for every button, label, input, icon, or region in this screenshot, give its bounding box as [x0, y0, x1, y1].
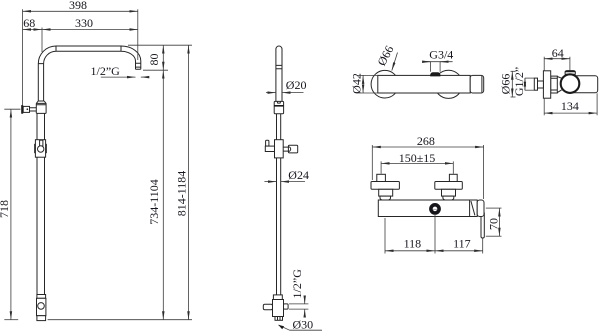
bottom collar	[37, 295, 46, 299]
svg-text:Ø30: Ø30	[293, 317, 314, 331]
svg-text:Ø66: Ø66	[498, 74, 512, 95]
wire upper left pipe	[38, 64, 43, 101]
svg-text:68: 68	[23, 16, 35, 30]
bottom collar	[273, 295, 282, 300]
svg-text:1/2”G: 1/2”G	[91, 64, 121, 78]
svg-text:117: 117	[453, 236, 471, 250]
left escutcheon circle	[371, 70, 399, 98]
wall bracket knob	[21, 105, 23, 114]
right union	[442, 189, 456, 196]
wire lower pipe upper part	[37, 113, 45, 139]
svg-text:150±15: 150±15	[399, 151, 436, 165]
center knob rings	[431, 205, 439, 213]
taper between hex and knob	[557, 77, 561, 93]
left knob	[263, 304, 272, 310]
feet	[275, 317, 283, 321]
hex nut	[551, 76, 558, 93]
svg-text:118: 118	[404, 236, 422, 250]
handle hub	[477, 200, 484, 217]
joint connector on pipe	[36, 101, 46, 113]
right outlet knob	[284, 304, 289, 309]
svg-text:64: 64	[552, 46, 564, 60]
svg-text:80: 80	[147, 54, 161, 66]
wire right elbow	[121, 46, 141, 61]
slider holder side	[266, 140, 269, 146]
wire arm top horizontal pipe	[56, 46, 121, 51]
svg-text:718: 718	[0, 200, 11, 218]
joint connector	[274, 101, 283, 113]
right dome	[443, 196, 454, 200]
svg-text:G3/4: G3/4	[429, 48, 453, 62]
fitting 1/2G outlet under arm	[136, 61, 141, 69]
bar end vertical line	[469, 200, 471, 217]
body cylinder	[571, 76, 598, 93]
bottom valve body	[37, 298, 46, 315]
extension lines top	[22, 9, 24, 105]
mixer front body bar	[378, 200, 477, 217]
svg-text:Ø42: Ø42	[349, 73, 363, 94]
wall plate	[543, 71, 550, 98]
wire lower pipe long part	[37, 157, 45, 294]
svg-text:734-1104: 734-1104	[147, 179, 161, 225]
pipe	[277, 114, 281, 141]
end knob	[470, 75, 484, 93]
svg-text:1/2”G: 1/2”G	[290, 269, 304, 299]
inlet collar	[534, 78, 537, 90]
knob circle thick	[561, 74, 580, 93]
left union	[379, 189, 393, 196]
left dome	[380, 196, 391, 200]
dim 718	[4, 108, 20, 110]
G3/4 nut dark	[430, 72, 440, 76]
svg-text:70: 70	[487, 218, 501, 230]
svg-text:Ø20: Ø20	[286, 78, 307, 92]
svg-text:268: 268	[417, 134, 435, 148]
pipe	[277, 158, 281, 295]
left escutcheon	[371, 182, 399, 190]
top pipe with rounded cap	[276, 46, 282, 101]
handle blade lower	[481, 212, 484, 238]
right escutcheon circle	[434, 70, 462, 98]
mixer body bar	[378, 75, 470, 93]
bottom extension line	[48, 319, 192, 321]
inlet stub G1/2	[538, 81, 544, 88]
svg-text:814-1184: 814-1184	[174, 171, 188, 217]
slider holder	[35, 140, 45, 158]
left inlet nut	[377, 174, 386, 181]
right inlet nut	[449, 174, 457, 181]
right escutcheon	[435, 182, 463, 190]
svg-text:134: 134	[561, 99, 579, 113]
bottom cap	[37, 316, 46, 321]
bottom valve body	[273, 300, 284, 317]
svg-text:330: 330	[75, 16, 93, 30]
dim 80	[128, 44, 192, 46]
svg-text:Ø24: Ø24	[288, 168, 309, 182]
lever diagonal	[471, 201, 475, 215]
wire left elbow	[38, 46, 56, 64]
svg-text:398: 398	[69, 0, 87, 12]
handle cap top	[565, 71, 575, 75]
